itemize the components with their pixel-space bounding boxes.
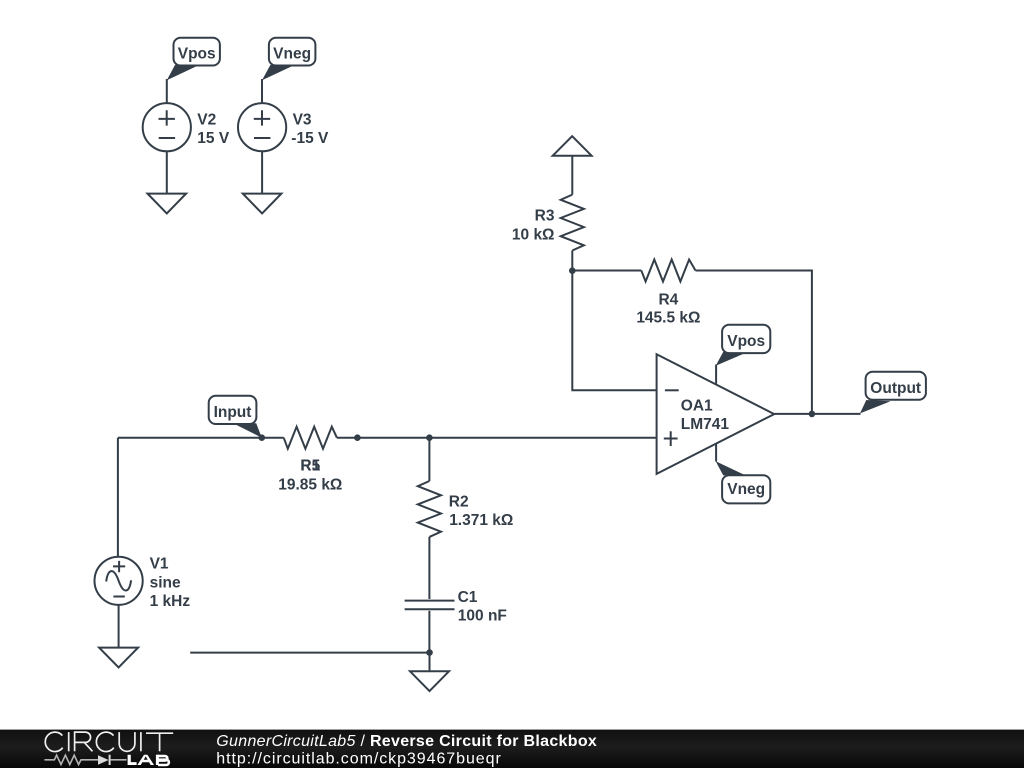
svg-text:Vpos: Vpos	[727, 333, 765, 350]
svg-text:GunnerCircuitLab5 / Reverse Ci: GunnerCircuitLab5 / Reverse Circuit for …	[216, 733, 597, 750]
ground (under V3)	[243, 194, 282, 214]
wire V1 to ground	[118, 605, 120, 648]
power flag VCC (up triangle)	[553, 136, 592, 156]
wire node to ground	[429, 653, 431, 672]
wire R2 to C1	[428, 537, 430, 599]
flag Vpos (op-amp supply)	[716, 325, 771, 366]
svg-text:R4: R4	[658, 291, 678, 308]
node C1 ground junction	[426, 649, 433, 656]
resistor R4	[636, 260, 700, 327]
wire op-amp output	[774, 413, 860, 415]
svg-text:145.5 kΩ: 145.5 kΩ	[636, 310, 700, 327]
flag Output	[860, 372, 926, 414]
svg-text:http://circuitlab.com/ckp39467: http://circuitlab.com/ckp39467bueqr	[216, 751, 501, 768]
logo LAB (drawn)	[128, 755, 154, 765]
flag Vpos (net label, top-left)	[167, 38, 220, 81]
flag Vneg (op-amp supply)	[716, 461, 771, 503]
wire flag to V2	[166, 79, 168, 103]
wire opamp Vpos pin	[715, 365, 717, 384]
voltage source V3	[238, 103, 329, 151]
svg-text:10 kΩ: 10 kΩ	[512, 227, 555, 244]
footer banner	[0, 730, 1024, 768]
wire node to R4	[572, 270, 641, 272]
svg-text:15 V: 15 V	[197, 130, 230, 147]
wire R3 to node	[571, 251, 573, 271]
node R2 top junction	[426, 434, 433, 441]
svg-text:-15 V: -15 V	[291, 130, 329, 147]
resistor R5 (overlapping R1)	[278, 427, 342, 494]
svg-text:R1: R1	[300, 458, 320, 475]
flag Input	[209, 396, 262, 438]
svg-text:V2: V2	[197, 112, 216, 129]
wire C1 to ground node	[428, 611, 430, 653]
svg-text:R3: R3	[535, 207, 555, 224]
svg-text:OA1: OA1	[681, 398, 713, 415]
ground (under V1)	[99, 648, 138, 668]
voltage source V2	[143, 103, 230, 151]
op-amp OA1	[657, 354, 775, 474]
svg-text:Vneg: Vneg	[273, 46, 311, 63]
svg-text:V1: V1	[150, 556, 169, 573]
ground (under V2)	[148, 194, 187, 214]
node junction R3/R4/opamp	[569, 267, 576, 274]
voltage source V1 (sine)	[95, 556, 191, 611]
svg-text:sine: sine	[150, 574, 181, 591]
wire flag to V3	[261, 79, 263, 103]
node output junction	[809, 411, 816, 418]
wire input corner to V1	[117, 438, 119, 557]
svg-text:R2: R2	[449, 493, 469, 510]
wire main input run	[118, 437, 657, 439]
svg-text:1.371 kΩ: 1.371 kΩ	[449, 512, 513, 529]
wire node to op-amp inverting input	[572, 271, 656, 391]
svg-text:100 nF: 100 nF	[458, 607, 507, 624]
wire R4 to output node	[696, 271, 812, 414]
svg-text:LM741: LM741	[681, 416, 730, 433]
wire bottom stub	[190, 652, 429, 654]
ground (under C1)	[410, 671, 449, 691]
resistor R3	[512, 195, 584, 251]
wire R2 top lead	[428, 438, 430, 481]
logo CIRCUIT (stroked letters)	[45, 732, 173, 751]
node input-flag junction	[259, 434, 266, 441]
node R5 right junction	[354, 434, 361, 441]
svg-text:V3: V3	[293, 112, 312, 129]
svg-text:Output: Output	[870, 380, 921, 397]
svg-text:Vpos: Vpos	[178, 46, 216, 63]
svg-text:Input: Input	[214, 404, 252, 421]
wire opamp Vneg pin	[715, 444, 717, 462]
svg-text:C1: C1	[458, 589, 478, 606]
resistor R2	[418, 481, 514, 537]
svg-text:Vneg: Vneg	[727, 481, 765, 498]
svg-text:19.85 kΩ: 19.85 kΩ	[278, 476, 342, 493]
wire VCC to R3	[571, 156, 573, 195]
flag Vneg (net label, top-left)	[262, 38, 315, 81]
svg-text:1 kHz: 1 kHz	[150, 593, 191, 610]
wire V2 to ground	[166, 151, 168, 193]
capacitor C1	[405, 589, 507, 624]
logo resistor-diode glyph	[44, 755, 98, 764]
wire V3 to ground	[261, 151, 263, 193]
